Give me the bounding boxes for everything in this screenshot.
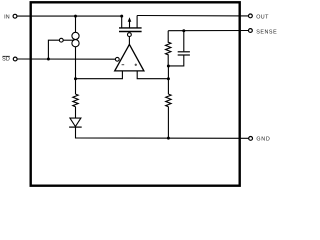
junction SENSE / capacitor branch — [182, 29, 185, 32]
current source enable bubble — [59, 38, 63, 42]
svg-text:SENSE: SENSE — [256, 29, 277, 35]
shutdown input bubble on amplifier — [115, 57, 119, 61]
wire R1 to diode — [75, 107, 77, 118]
svg-text:SD: SD — [2, 57, 10, 63]
wire IN rail — [17, 15, 122, 17]
svg-text:GND: GND — [256, 136, 270, 142]
svg-text:IN: IN — [4, 15, 10, 21]
wire non-inverting input to feedback node — [137, 71, 168, 79]
pin SENSE — [249, 29, 278, 36]
junction IN rail / current source branch — [74, 15, 77, 18]
wire SD input — [17, 58, 115, 60]
resistor R3 (divider bottom) — [166, 94, 171, 107]
pin IN — [4, 14, 17, 20]
resistor R1 (bandgap) — [73, 94, 78, 107]
wire IN rail to current source — [75, 16, 77, 32]
drain terminal — [136, 16, 138, 28]
wire OUT (drain to OUT pin) — [137, 15, 248, 17]
IC block outline — [31, 2, 240, 185]
wire feedback column — [167, 66, 169, 94]
current source I1 (stacked circles) — [72, 32, 79, 47]
wire current source to bandgap node — [75, 47, 77, 94]
wire enable bubble to current source — [63, 39, 74, 41]
pass transistor Q1 (PMOS) — [119, 16, 142, 32]
capacitor C1 — [168, 31, 190, 66]
wire SD branch to current source enable — [48, 40, 59, 59]
pin OUT — [249, 14, 270, 21]
body arrow — [129, 20, 131, 28]
junction R2/C1 bottom node — [167, 65, 170, 68]
non-inverting input marker — [135, 64, 137, 66]
source terminal — [121, 16, 123, 28]
pin GND — [249, 136, 271, 142]
junction ground rail / divider — [167, 137, 170, 140]
wire SENSE — [168, 30, 248, 32]
resistor R2 (sense top) — [166, 31, 171, 66]
wire amplifier output to gate bubble — [128, 36, 130, 44]
gate bubble (P-channel) — [127, 33, 131, 37]
diode D1 — [69, 118, 82, 127]
pin SD (active low) — [2, 56, 17, 62]
junction feedback node — [167, 77, 170, 80]
inverting input marker — [122, 64, 125, 66]
junction bandgap node — [74, 77, 77, 80]
svg-text:OUT: OUT — [256, 15, 269, 21]
junction SD branch — [47, 58, 50, 61]
wire R3 to ground rail — [167, 107, 169, 138]
wire diode to ground rail — [76, 127, 249, 138]
error amplifier U1 — [115, 44, 144, 71]
wire bandgap node to inverting input — [76, 71, 123, 79]
junction IN rail / pass transistor source — [120, 15, 123, 18]
